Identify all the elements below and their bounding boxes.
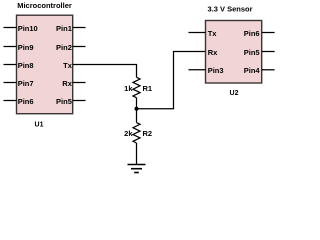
- svg-text:Pin3: Pin3: [208, 66, 224, 75]
- svg-text:R1: R1: [143, 84, 153, 93]
- svg-text:Tx: Tx: [208, 29, 218, 38]
- pin Pin4: [244, 66, 275, 75]
- pin Pin7: [4, 79, 34, 88]
- svg-text:Pin1: Pin1: [56, 24, 72, 33]
- svg-text:Pin9: Pin9: [18, 43, 34, 52]
- pin Pin8: [4, 61, 34, 70]
- svg-text:Pin4: Pin4: [244, 66, 261, 75]
- svg-text:Pin5: Pin5: [244, 48, 260, 57]
- wire R1 bottom to junction: [136, 98, 138, 109]
- svg-text:3.3 V Sensor: 3.3 V Sensor: [207, 5, 252, 14]
- wire R2 bottom to ground: [136, 143, 138, 165]
- svg-text:U2: U2: [230, 90, 239, 97]
- pin Tx (U2): [189, 29, 218, 38]
- svg-text:Pin8: Pin8: [18, 61, 34, 70]
- sensor U2 body: [206, 21, 262, 84]
- svg-text:Pin6: Pin6: [18, 97, 34, 106]
- svg-text:1k: 1k: [124, 84, 133, 93]
- pin Pin2: [56, 43, 85, 52]
- svg-text:Rx: Rx: [208, 48, 218, 57]
- pin Pin3: [189, 66, 224, 75]
- svg-text:Rx: Rx: [62, 79, 72, 88]
- resistor R2: [133, 123, 140, 143]
- microcontroller U1 body: [17, 15, 73, 114]
- wire junction to U2 Rx: [137, 52, 206, 109]
- svg-text:2k: 2k: [124, 129, 133, 138]
- svg-text:Pin6: Pin6: [244, 29, 260, 38]
- svg-text:Pin2: Pin2: [56, 43, 72, 52]
- svg-text:R2: R2: [143, 129, 153, 138]
- svg-text:Pin7: Pin7: [18, 79, 34, 88]
- pin Pin1: [56, 24, 85, 33]
- svg-text:Pin10: Pin10: [18, 24, 38, 33]
- resistor R1: [133, 77, 140, 97]
- pin Pin6: [4, 97, 34, 106]
- pin Pin10: [4, 24, 38, 33]
- svg-text:U1: U1: [35, 121, 44, 128]
- pin Rx (U1): [62, 79, 85, 88]
- svg-text:Tx: Tx: [63, 61, 73, 70]
- pin Pin9: [4, 43, 34, 52]
- pin Pin5: [244, 48, 275, 57]
- wire junction to R2 top: [136, 109, 138, 123]
- pin Pin6: [244, 29, 275, 38]
- svg-text:Microcontroller: Microcontroller: [17, 1, 72, 10]
- junction node dot: [135, 107, 139, 111]
- ground: [128, 165, 146, 173]
- wire U1 Tx to R1 top: [73, 65, 137, 78]
- pin Pin5: [56, 97, 85, 106]
- svg-text:Pin5: Pin5: [56, 97, 72, 106]
